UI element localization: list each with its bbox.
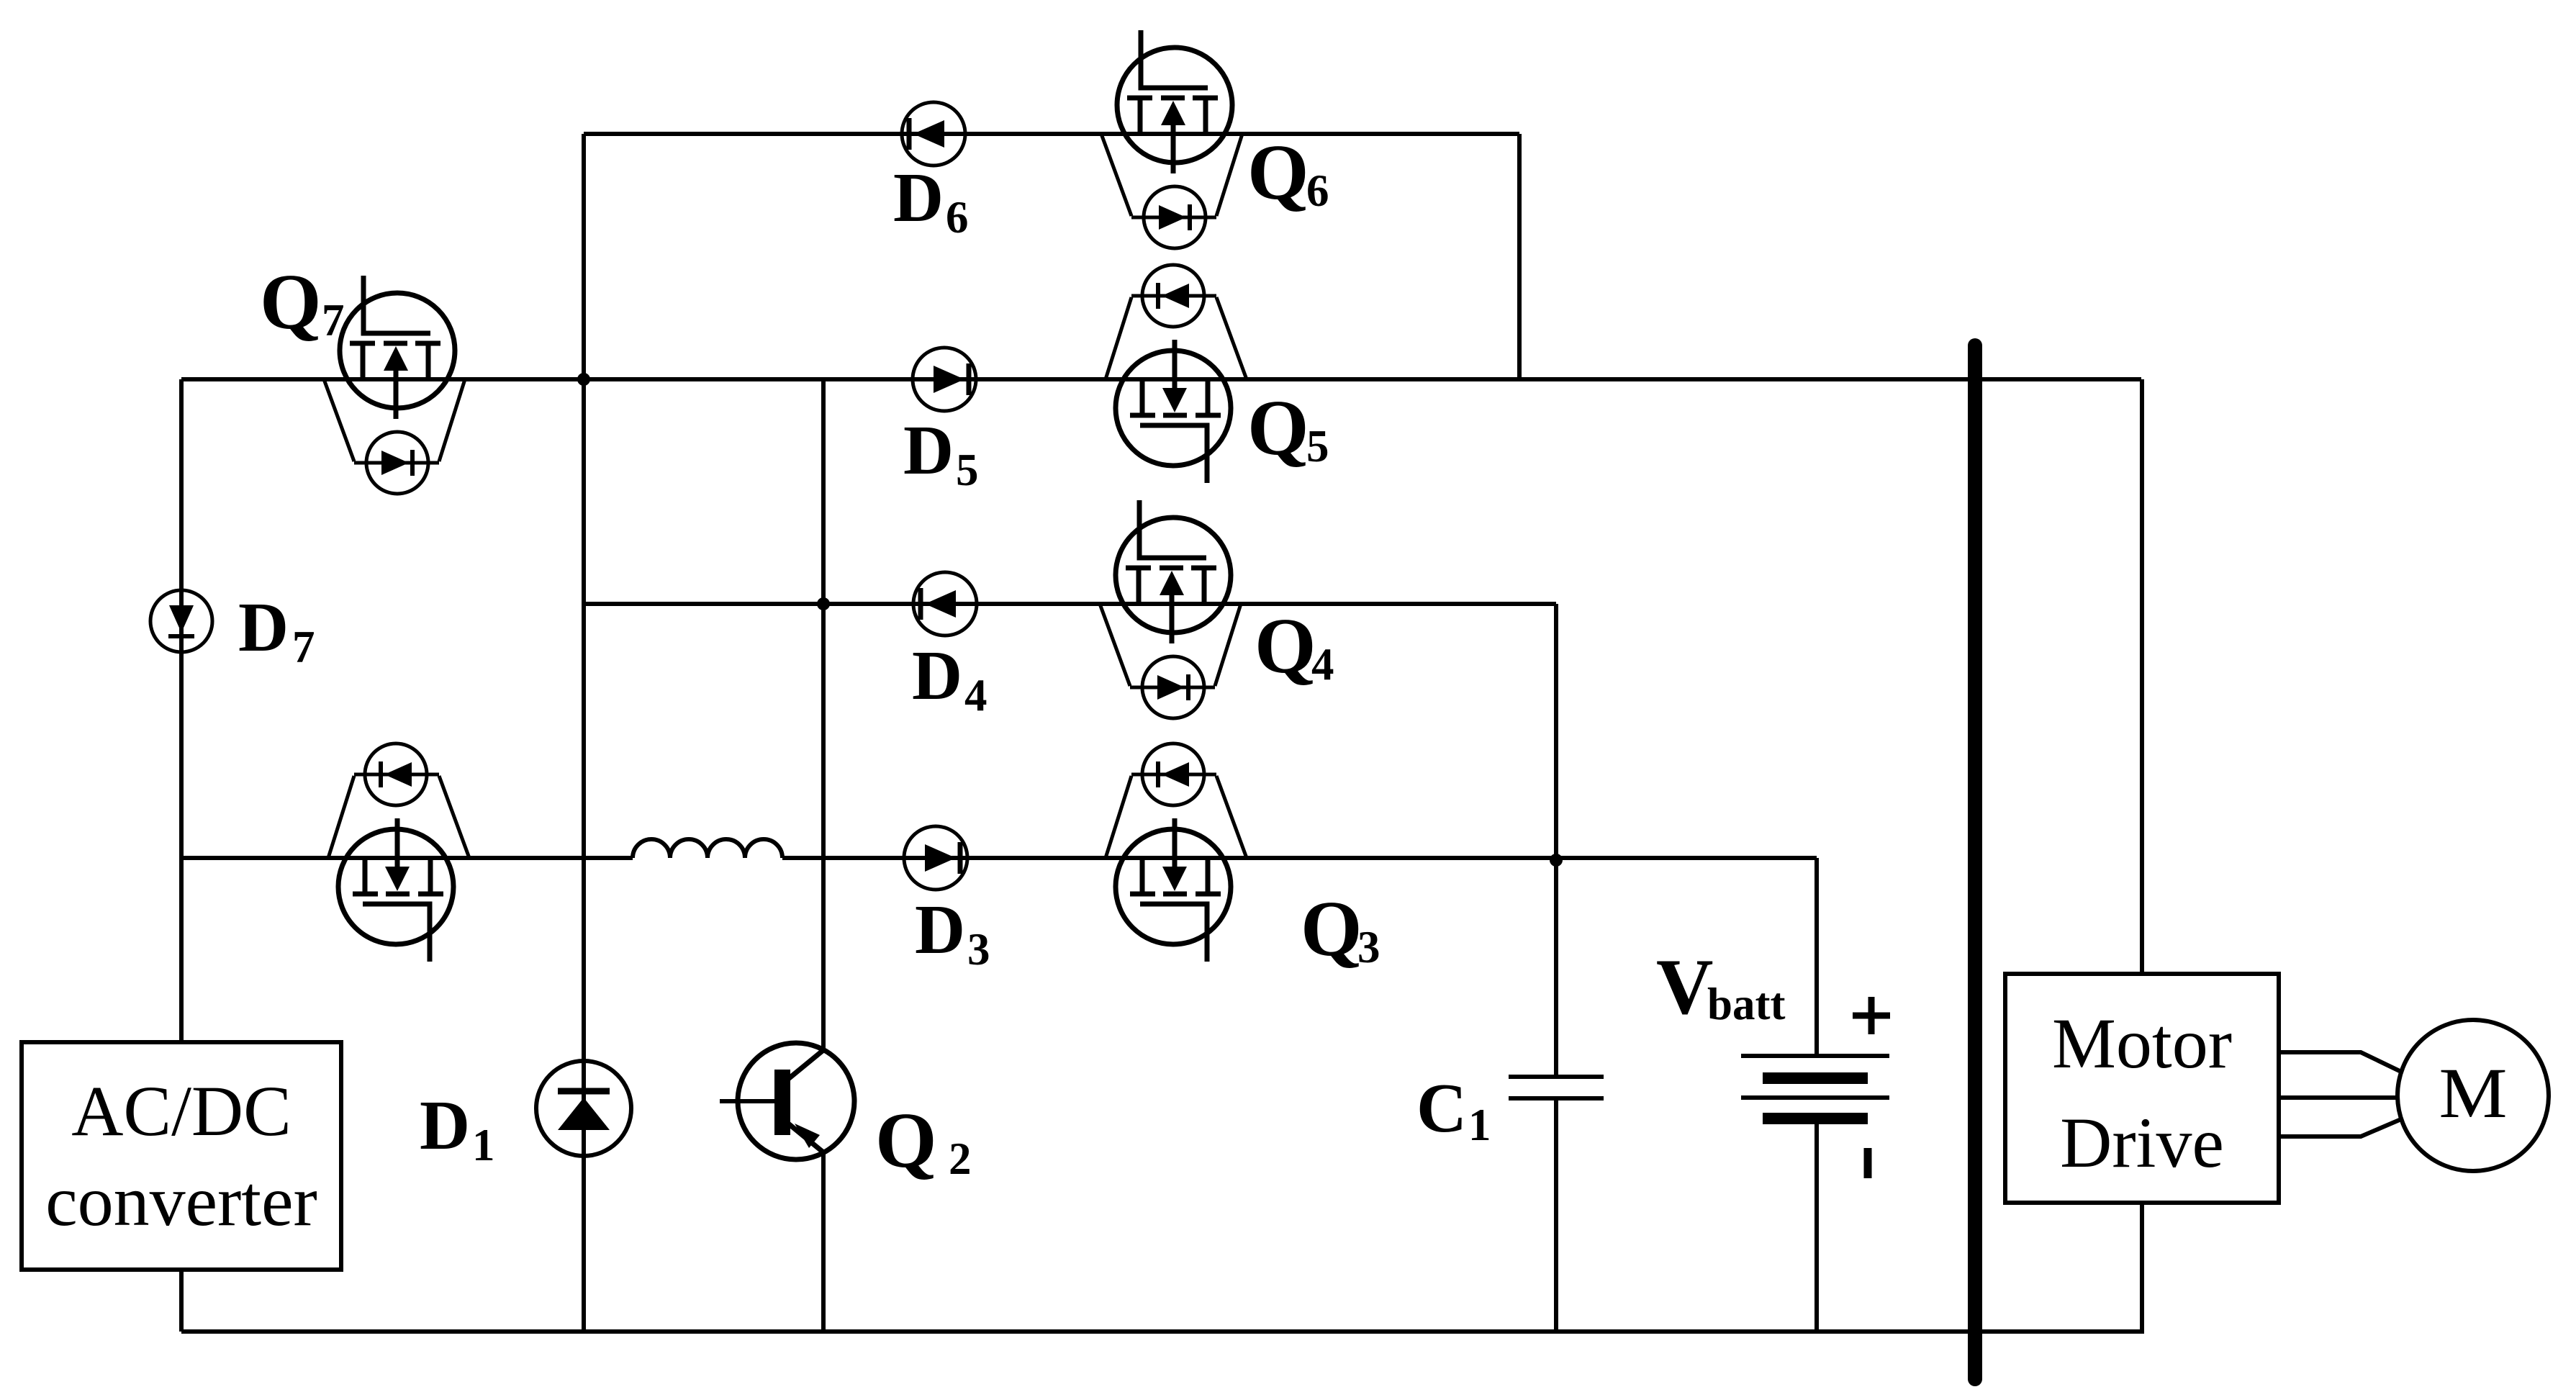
diode D6 <box>902 102 965 166</box>
wire motor lead middle <box>2279 1095 2398 1100</box>
svg-text:7: 7 <box>322 295 345 345</box>
wire vertical x2976 lower <box>2140 1203 2144 1332</box>
svg-text:D: D <box>420 1087 470 1164</box>
svg-text:D: D <box>903 412 954 489</box>
wire vertical x2524 upper <box>1815 858 1819 1056</box>
transistor Q7 <box>324 276 465 494</box>
svg-text:batt: batt <box>1707 979 1786 1029</box>
node junction dot row3/x1144 <box>817 597 830 610</box>
wire bottom <box>181 1329 2144 1334</box>
wire vertical x2162 lower <box>1554 1098 1558 1332</box>
svg-text:5: 5 <box>1306 421 1329 471</box>
diode D4 <box>913 572 977 636</box>
wire row2 <box>181 377 2141 381</box>
diode D7 <box>150 590 212 652</box>
node junction dot row2/x811 <box>577 373 590 386</box>
transistor Q1 <box>328 744 469 962</box>
wire vertical x2976 upper <box>2140 379 2144 974</box>
transistor Q4 <box>1100 500 1241 718</box>
svg-text:Q: Q <box>1247 128 1309 216</box>
Motor Drive box <box>2005 974 2279 1203</box>
diode D1 <box>536 1061 631 1156</box>
transistor Q2 <box>720 1043 854 1160</box>
wire vertical x811 <box>582 134 586 1332</box>
motor M circle <box>2398 1020 2549 1171</box>
diode D5 <box>913 348 976 411</box>
transistor Q5 <box>1106 265 1247 483</box>
node junction dot row4/x2162 <box>1550 854 1563 867</box>
svg-text:Q: Q <box>1255 602 1316 690</box>
wire vertical x2524 lower <box>1815 1118 1819 1332</box>
svg-text:3: 3 <box>967 924 990 975</box>
wire row1 top <box>584 132 1519 136</box>
capacitor C1 <box>1509 1077 1604 1098</box>
svg-text:Drive: Drive <box>2060 1103 2224 1183</box>
wire vertical x1144 lower <box>821 1152 826 1332</box>
wire vertical x2162 upper <box>1554 604 1558 1077</box>
svg-text:1: 1 <box>472 1120 495 1170</box>
bus bar thick <box>1968 345 1982 1379</box>
AC/DC converter box <box>22 1042 341 1270</box>
wire row4 right <box>782 856 1817 860</box>
svg-text:Q: Q <box>1301 885 1362 972</box>
svg-text:2: 2 <box>949 1134 972 1184</box>
battery plus sign <box>1853 997 1890 1034</box>
svg-text:5: 5 <box>956 445 979 495</box>
battery Vbatt <box>1741 1056 1889 1118</box>
svg-text:Q: Q <box>875 1096 937 1184</box>
svg-text:M: M <box>2439 1053 2508 1133</box>
svg-text:7: 7 <box>292 622 315 672</box>
svg-text:4: 4 <box>1311 639 1334 690</box>
wire vertical x2111 <box>1517 134 1522 379</box>
wire vertical x1144 upper <box>821 379 826 1050</box>
svg-text:converter: converter <box>45 1161 317 1241</box>
wire left bus upper <box>179 379 184 1042</box>
svg-text:AC/DC: AC/DC <box>71 1071 292 1151</box>
svg-text:6: 6 <box>946 192 969 243</box>
transistor Q3 <box>1106 744 1247 962</box>
diode D3 <box>904 826 967 890</box>
svg-text:D: D <box>912 637 962 714</box>
wire motor lead bottom <box>2279 1119 2401 1136</box>
wire row3 <box>584 602 1556 606</box>
svg-text:Q: Q <box>260 258 322 345</box>
transistor Q6 <box>1101 30 1242 248</box>
wire motor lead top <box>2279 1052 2401 1072</box>
svg-text:D: D <box>238 589 289 666</box>
wire left bus lower <box>179 1270 184 1332</box>
battery minus sign <box>1864 1148 1872 1178</box>
svg-text:C: C <box>1416 1070 1467 1147</box>
svg-text:6: 6 <box>1306 166 1329 216</box>
svg-text:1: 1 <box>1468 1100 1491 1150</box>
svg-text:3: 3 <box>1357 922 1380 972</box>
svg-text:Motor: Motor <box>2052 1003 2232 1083</box>
svg-text:D: D <box>915 891 965 968</box>
wire row4 left <box>181 856 633 860</box>
svg-text:4: 4 <box>964 670 988 720</box>
svg-text:V: V <box>1656 943 1713 1031</box>
svg-text:Q: Q <box>1247 384 1309 471</box>
svg-text:D: D <box>893 159 944 236</box>
inductor L1 <box>633 839 782 858</box>
